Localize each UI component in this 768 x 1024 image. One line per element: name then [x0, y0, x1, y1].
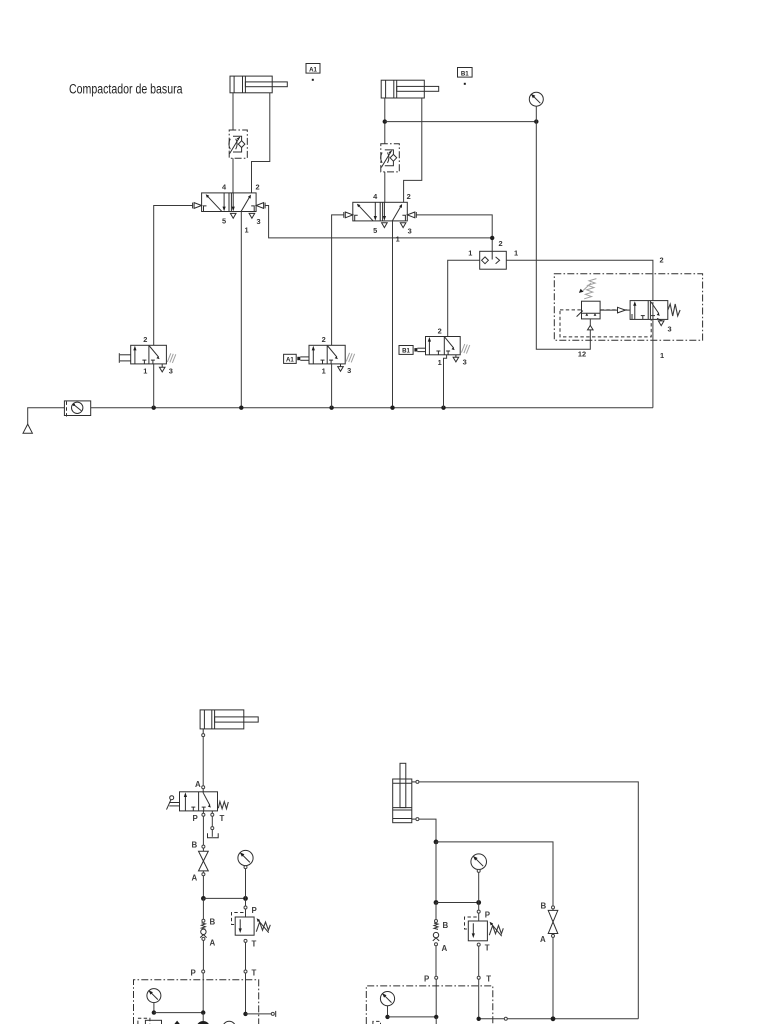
svg-text:T: T — [252, 969, 257, 978]
svg-text:A: A — [195, 780, 201, 789]
wire valve V2 left pilot to valve S2 port 2 — [332, 215, 344, 345]
wire tank return line to cylinder loop — [507, 1018, 638, 1020]
motor of power unit 1 (partially visible) — [223, 1021, 236, 1024]
svg-text:2: 2 — [407, 192, 411, 201]
wire valve V2 port 1 to manifold — [392, 221, 394, 408]
ports P and T of HV1 — [193, 811, 225, 823]
svg-text:B1: B1 — [402, 348, 410, 355]
wire cylinder C2 top port loop to tank line — [419, 782, 638, 1019]
svg-text:3: 3 — [463, 357, 467, 366]
svg-text:Compactador de basura: Compactador de basura — [69, 82, 183, 97]
port circle P of power unit 1 — [191, 969, 205, 1013]
pressure gauge G4 in power unit 2 — [380, 992, 394, 1017]
svg-text:1: 1 — [396, 235, 400, 244]
wire cylinder B right port to valve V2 port 2 — [404, 98, 422, 202]
wire node R1 down to node R2 — [435, 842, 437, 903]
svg-text:T: T — [220, 814, 225, 823]
sequence valve: 3/2 switching section — [630, 301, 668, 322]
flow control valve D1 (one-way flow control) — [229, 130, 247, 158]
wire valve V2 right pilot to shuttle node — [416, 215, 492, 251]
shuttle valve W1 (OR) — [480, 251, 507, 269]
label A1 (marker box) — [306, 64, 320, 81]
svg-text:A: A — [210, 939, 216, 948]
svg-text:T: T — [486, 975, 491, 984]
svg-text:3: 3 — [667, 325, 671, 334]
wire valve V1 right pilot to shuttle node — [265, 206, 492, 238]
cylinder A (double-acting) — [230, 76, 287, 93]
valve S3 (3/2-way valve actuated by signal B1) — [426, 337, 461, 355]
return spring of S3 — [461, 344, 469, 354]
svg-text:P: P — [191, 969, 196, 978]
port labels valve S1 — [143, 335, 173, 376]
wire valve V1 port 1 to manifold — [240, 212, 242, 408]
port labels shuttle valve — [468, 239, 518, 258]
junction dot pump line unit 2 — [434, 1015, 438, 1019]
wire node R2 to gauge branch — [436, 902, 479, 904]
wire gauge G2 to pump line — [154, 1012, 203, 1014]
wire cylinder A left port to flow control — [232, 93, 234, 130]
valve HV1 (3/2-way hand lever valve) — [180, 792, 218, 811]
junction dot gauge branch — [243, 896, 248, 901]
junction dot node R2 — [434, 900, 439, 905]
sequence valve exhaust triangle port 3 — [658, 321, 664, 326]
junction dot manifold at valve V2 — [390, 406, 394, 410]
plugged test port of power unit 1 — [246, 1011, 276, 1017]
port circle T of power unit 2 — [477, 975, 491, 1019]
port labels valve S3 — [438, 326, 467, 367]
return spring of HV1 — [218, 802, 228, 809]
wire cylinder C1 to valve HV1 port A — [202, 737, 204, 786]
pressure relief valve RV1 — [232, 898, 271, 948]
svg-text:2: 2 — [498, 239, 502, 248]
drive arrow of power unit 1 — [174, 1021, 179, 1024]
svg-text:A1: A1 — [286, 357, 294, 364]
hydraulic power unit 2 (dash-dot frame) — [366, 986, 493, 1024]
wire gauge branch horizontal — [385, 121, 537, 123]
svg-text:P: P — [193, 814, 198, 823]
svg-text:A1: A1 — [309, 66, 317, 73]
junction dot manifold at valve S3 — [441, 406, 445, 410]
sequence valve inner dashed frame — [560, 310, 651, 337]
junction dot shuttle pilot node — [490, 236, 494, 240]
label B1 (marker box) — [458, 68, 473, 85]
svg-text:1: 1 — [514, 249, 518, 258]
junction dot gauge G3 branch — [476, 900, 481, 905]
junction dot manifold at valve S2 — [329, 406, 333, 410]
wire sequence valve port 1 to manifold — [652, 302, 654, 408]
hand lever actuator of HV1 — [167, 796, 180, 810]
svg-text:P: P — [485, 911, 490, 920]
tank box of power unit 1 — [145, 1020, 161, 1024]
flow control valve D2 (one-way flow control) — [381, 144, 400, 172]
wire cylinder C2 bottom port to node R1 — [419, 819, 436, 842]
junction dot manifold at valve S1 — [152, 406, 156, 410]
air service unit (conditioning unit, simplified) — [64, 401, 90, 418]
wire valve V1 left pilot to valve S1 port 2 — [154, 206, 193, 346]
svg-text:4: 4 — [222, 183, 227, 192]
wire check valve to pump unit port P — [202, 940, 204, 970]
junction dot T line unit 2 — [477, 1017, 481, 1021]
pilot port 14 of V1 (left) — [193, 203, 202, 209]
push-button actuator of S1 — [119, 353, 130, 363]
exhaust silencer port 3 of V2 — [400, 223, 406, 228]
exhaust triangle port 3 of S1 — [159, 364, 165, 372]
svg-text:2: 2 — [659, 256, 663, 265]
cylinder B (double-acting) — [381, 80, 439, 98]
valve S2 (3/2-way valve actuated by signal A1) — [309, 345, 345, 364]
junction dot left node L1 — [201, 896, 206, 901]
port circle T of power unit 1 — [244, 969, 257, 1014]
wire cylinder A right port to valve V1 port 2 — [252, 93, 270, 193]
valve S1 (3/2-way push-button valve) — [131, 345, 167, 364]
check valve CV1 — [200, 898, 215, 947]
wire pump suction line — [202, 1013, 204, 1021]
wire supply manifold — [91, 407, 653, 409]
svg-text:T: T — [252, 940, 257, 949]
valve V1 (5/2-way pneumatic valve) — [202, 193, 257, 212]
svg-text:4: 4 — [373, 192, 378, 201]
hydraulic power unit 1 (dash-dot frame) — [134, 980, 259, 1024]
pressure sequence valve assembly Z2 (outer dash-dot frame) — [554, 274, 702, 340]
port labels sequence valve — [578, 256, 672, 361]
wire flow control D1 to valve V1 port 4 — [232, 158, 234, 209]
svg-text:3: 3 — [169, 366, 173, 375]
return spring of S1 — [167, 353, 175, 363]
wire relief valve RV2 to power unit 2 port T — [478, 946, 480, 976]
junction dot tank return at HS2 — [551, 1016, 556, 1021]
pressure gauge G2 in power unit 1 — [147, 989, 161, 1013]
svg-text:P: P — [252, 906, 257, 915]
pilot port 12 of V2 (right) — [407, 212, 416, 218]
wire pilot line 12 from gauge node to sequence valve — [536, 122, 590, 350]
wire node L1 to gauge branch — [203, 897, 245, 899]
filter dashed box of power unit 2 (partially visible) — [373, 1021, 381, 1024]
port labels valve V1 — [222, 183, 261, 235]
sequence valve pilot triangle port 12 — [588, 319, 594, 330]
pressure gauge G1 — [238, 850, 253, 898]
svg-text:5: 5 — [222, 217, 226, 226]
svg-text:12: 12 — [578, 350, 586, 359]
junction dot under gauge G2 — [152, 1010, 156, 1014]
exhaust triangle port 3 of S2 — [338, 364, 344, 371]
svg-text:3: 3 — [408, 226, 412, 235]
wire HV1 port P down to shut-off valve — [202, 816, 204, 845]
svg-text:5: 5 — [373, 226, 377, 235]
svg-text:T: T — [485, 944, 490, 953]
port labels valve V2 — [373, 192, 412, 243]
svg-text:3: 3 — [347, 366, 351, 375]
svg-text:1: 1 — [660, 351, 664, 360]
svg-text:2: 2 — [322, 335, 326, 344]
svg-text:1: 1 — [143, 366, 147, 375]
junction dot tank line — [243, 1012, 247, 1016]
svg-text:2: 2 — [143, 335, 147, 344]
pump of power unit 1 (partially visible) — [196, 1021, 210, 1024]
exhaust silencer port 5 of V2 — [382, 223, 388, 228]
svg-text:1: 1 — [468, 249, 472, 258]
svg-text:A: A — [442, 944, 448, 953]
pilot port 14 of V2 (left) — [344, 212, 353, 218]
pressure gauge G3 — [471, 854, 487, 903]
sequence valve internal pilot link with check arrow — [600, 307, 630, 313]
port circle P of power unit 2 — [424, 975, 438, 1017]
svg-text:2: 2 — [438, 326, 442, 335]
junction dot under gauge G4 — [385, 1015, 389, 1019]
check valve CV2 — [433, 903, 449, 954]
sequence valve return spring — [668, 304, 680, 316]
wire node R1 to shut-off valve HS2 — [436, 842, 553, 906]
signal actuator label box A1 of S2 — [284, 354, 309, 363]
exhaust silencer port 3 of V1 — [249, 213, 255, 218]
wire shut-off valve to node — [202, 876, 204, 899]
svg-text:A: A — [192, 874, 198, 883]
port labels valve S2 — [322, 335, 352, 376]
wire pump suction line unit 2 — [435, 1017, 437, 1024]
wire shut-off valve HS2 to tank line — [552, 937, 554, 1018]
junction dot on cylinder B line — [383, 119, 387, 123]
pressure relief valve RV2 — [465, 903, 504, 953]
junction dot manifold at valve V1 — [239, 406, 243, 410]
filter dashed box of power unit 1 — [138, 1018, 150, 1024]
svg-text:B: B — [443, 921, 449, 930]
svg-text:B1: B1 — [461, 70, 469, 77]
wire check valve CV2 to power unit 2 port P — [435, 946, 437, 977]
wire valve S2 port 1 to manifold — [331, 364, 333, 408]
svg-text:1: 1 — [438, 358, 442, 367]
wire shuttle left port to valve S3 port 2 — [448, 260, 480, 336]
sequence valve: pressure setting section — [577, 279, 601, 319]
svg-text:2: 2 — [255, 183, 259, 192]
hydraulic cylinder C2 (vertical) — [393, 763, 419, 822]
hydraulic cylinder C1 — [200, 710, 258, 737]
port circle A of valve HV1 — [202, 786, 205, 789]
wire relief valve to power unit port T — [245, 942, 247, 970]
wire tank return bottom line — [479, 1018, 505, 1020]
pressure gauge Z1 — [529, 92, 543, 121]
junction dot pump line — [201, 1010, 205, 1014]
svg-text:1: 1 — [244, 226, 248, 235]
svg-text:1: 1 — [322, 366, 326, 375]
valve V2 (5/2-way pneumatic valve) — [353, 202, 408, 221]
compressed air supply source — [23, 408, 64, 434]
wire shuttle right port to sequence valve port 2 — [506, 260, 653, 300]
exhaust silencer port 5 of V1 — [230, 213, 236, 218]
signal actuator label box B1 of S3 — [399, 346, 426, 355]
return spring of S2 — [346, 353, 354, 363]
svg-text:B: B — [541, 902, 547, 911]
pilot port 12 of V1 (right) — [256, 203, 265, 209]
wire gauge G4 to pump line — [388, 1016, 437, 1018]
svg-text:3: 3 — [256, 217, 260, 226]
wire valve S3 port 1 to manifold — [444, 355, 447, 408]
svg-text:B: B — [192, 841, 198, 850]
exhaust triangle port 3 of S3 — [453, 355, 459, 362]
wire valve S1 port 1 to manifold — [153, 364, 155, 408]
wire cylinder B left port down through flow control to valve V2 port 4 — [384, 98, 386, 144]
svg-text:B: B — [210, 918, 216, 927]
junction dot node R1 — [434, 840, 439, 845]
svg-text:A: A — [540, 935, 546, 944]
junction dot under gauge Z1 — [534, 119, 538, 123]
shut-off valve HS2 — [540, 902, 558, 945]
port circle on tank return line — [504, 1017, 507, 1020]
shut-off valve HS1 — [192, 841, 209, 883]
svg-text:P: P — [424, 975, 429, 984]
tank symbol at HV1 port T — [208, 816, 219, 838]
